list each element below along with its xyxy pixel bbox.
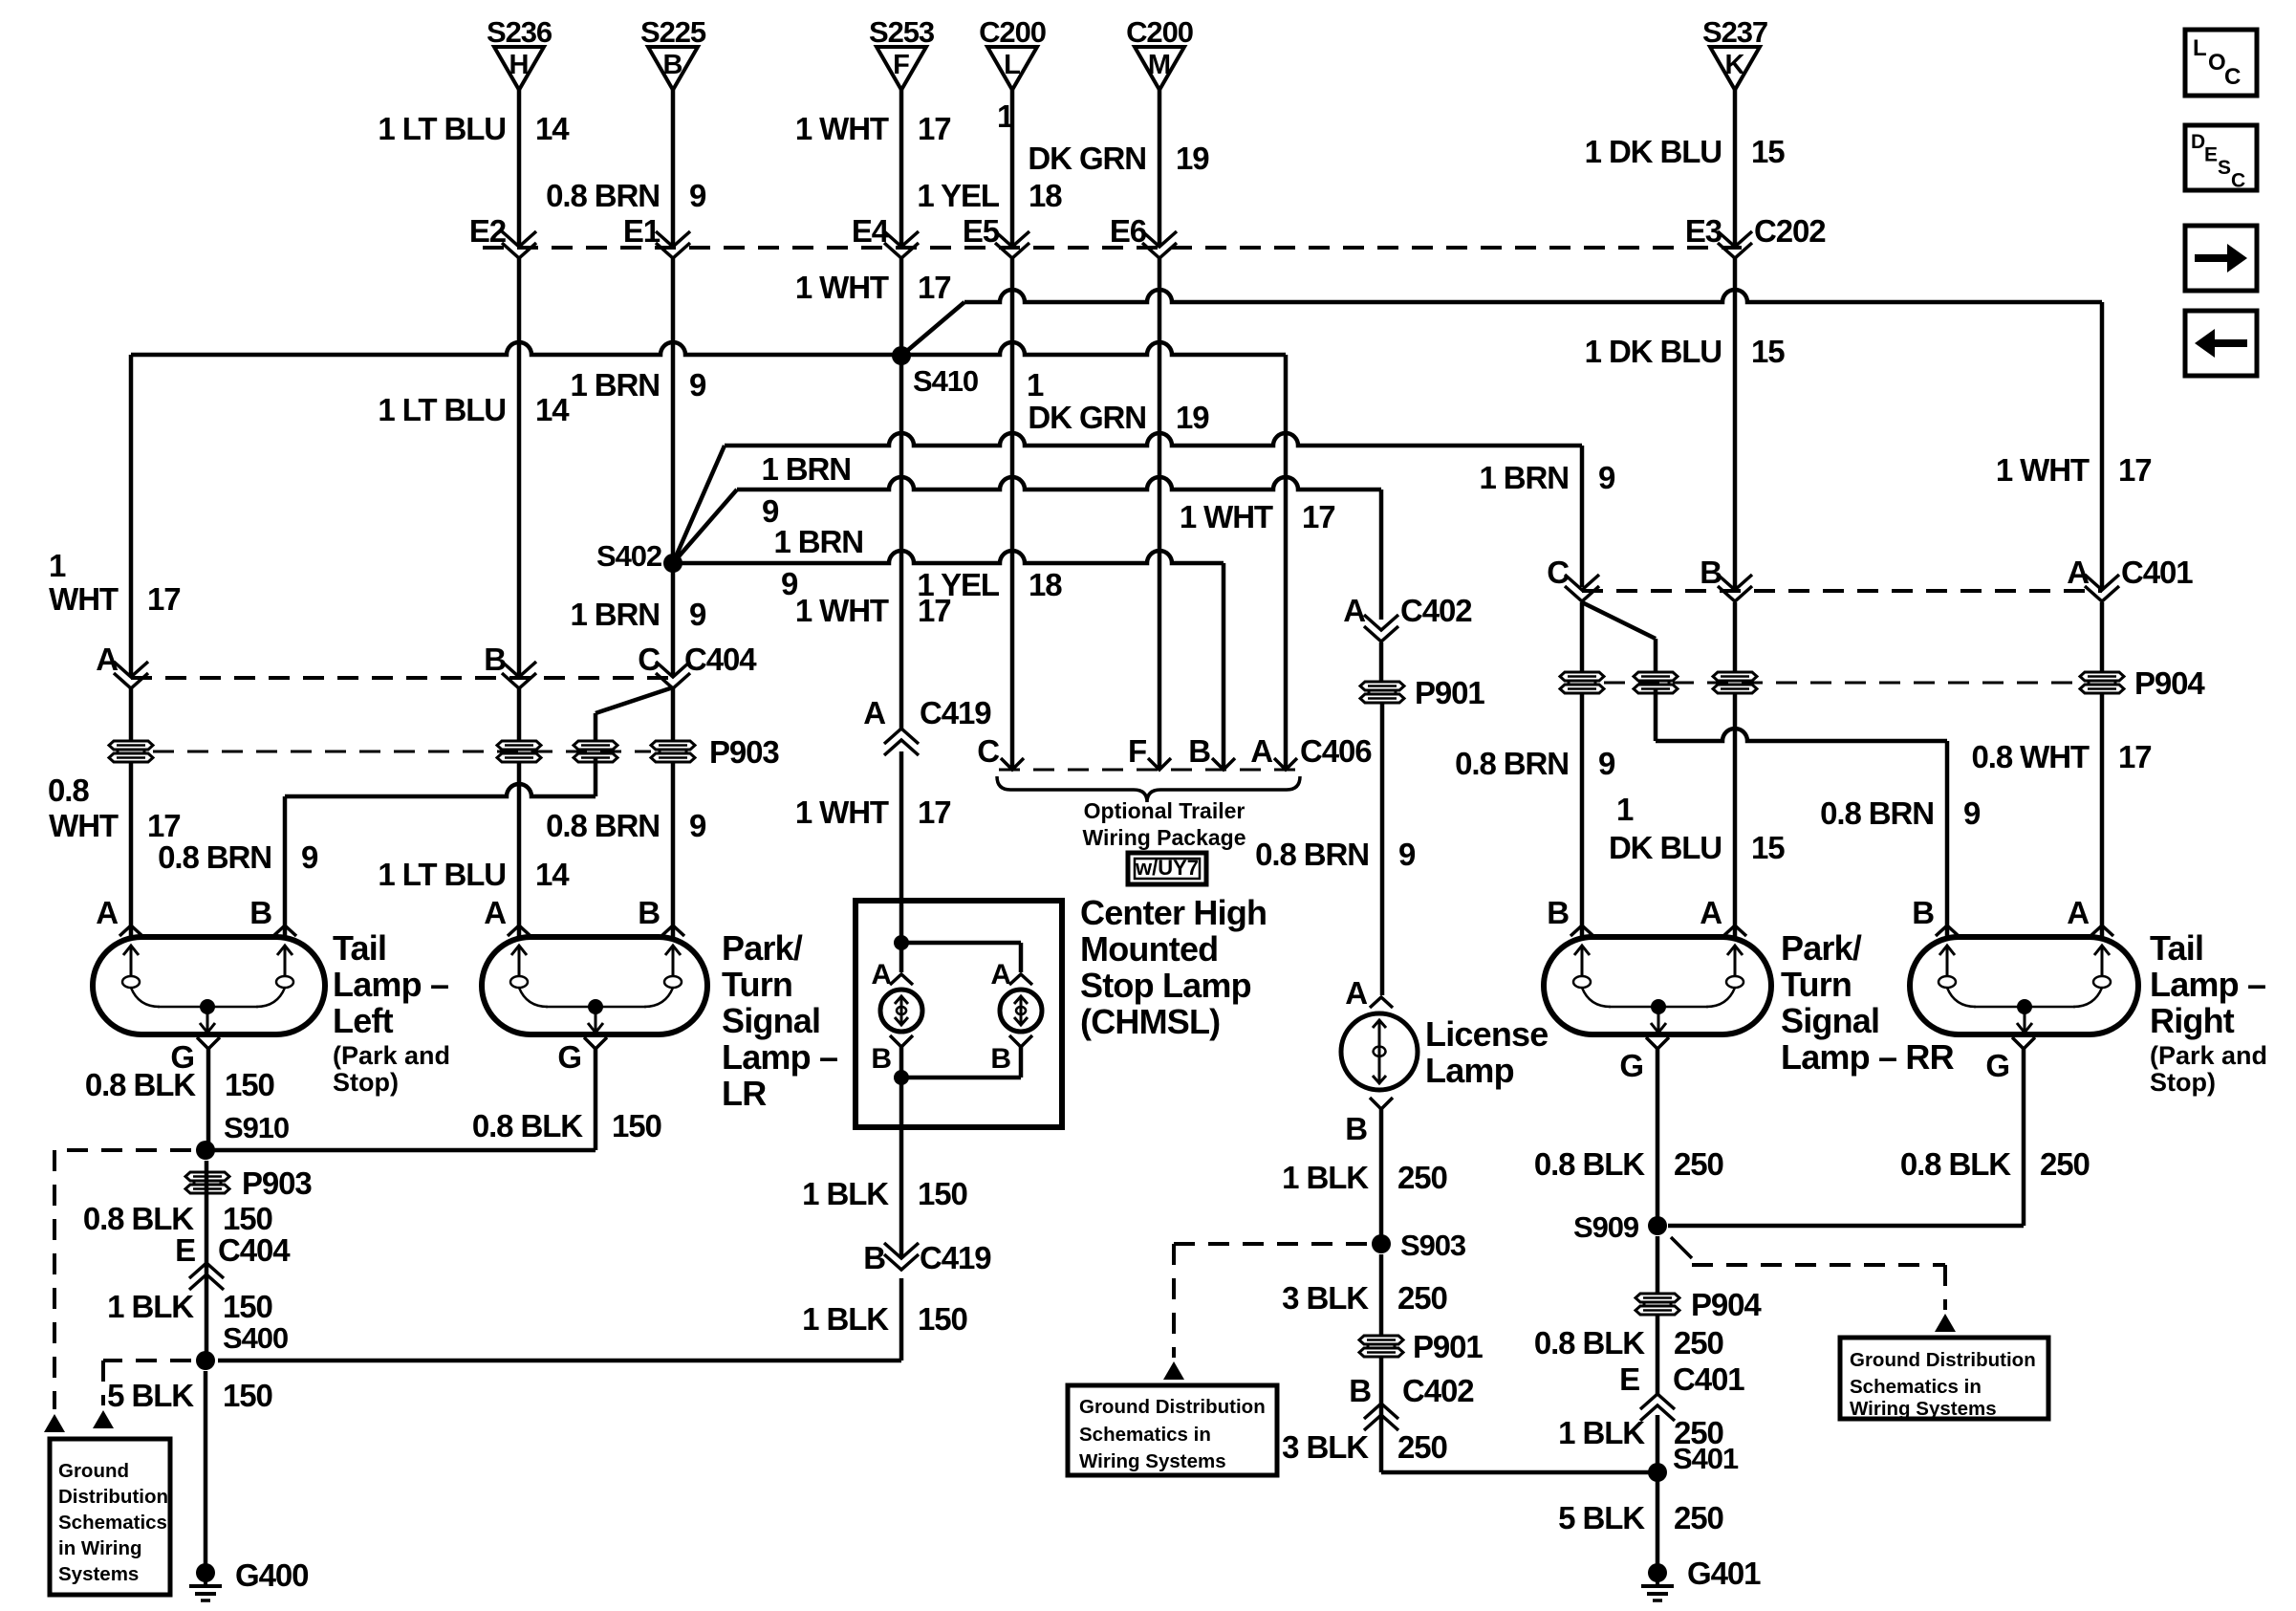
svg-text:Tail: Tail [2150, 928, 2203, 968]
wire label 0.8 BRN 9 [546, 178, 706, 213]
svg-text:DK GRN: DK GRN [1028, 400, 1146, 435]
wire L C202 to C406 [1010, 258, 1015, 768]
connector C202 pin E1 arrow [623, 213, 690, 258]
svg-text:1 YEL: 1 YEL [917, 178, 1000, 213]
svg-text:1: 1 [1027, 367, 1044, 403]
svg-text:1 BRN: 1 BRN [773, 524, 863, 559]
box arrow left [2185, 311, 2257, 376]
wire M C202 to C406 [1158, 258, 1162, 768]
svg-text:(Park and: (Park and [2150, 1041, 2267, 1070]
wire S410 branch diagonal [901, 302, 964, 356]
connector C401 pin A arrow [2067, 555, 2193, 601]
connector C402-A arrows [1343, 593, 1472, 642]
svg-text:C404: C404 [684, 642, 757, 677]
svg-text:Lamp – RR: Lamp – RR [1781, 1037, 1955, 1077]
svg-text:Wiring Systems: Wiring Systems [1079, 1450, 1226, 1472]
connector C406 pin B arrow [1188, 733, 1235, 770]
grommet row P904 dashed [1604, 665, 2205, 701]
svg-text:Ground Distribution: Ground Distribution [1079, 1396, 1266, 1418]
wire K S237 to C202 [1733, 90, 1738, 246]
wire B S402 to C404 [671, 563, 676, 675]
svg-text:G401: G401 [1687, 1556, 1761, 1591]
lamp Park/Turn Signal Lamp - LR [482, 937, 707, 1034]
svg-text:1 LT BLU: 1 LT BLU [378, 857, 506, 892]
svg-text:1 LT BLU: 1 LT BLU [378, 392, 506, 427]
wire label 0.8 BLK 250 RR [1534, 1146, 1723, 1182]
pin label A parkturn-RR [1700, 895, 1722, 930]
svg-text:P901: P901 [1413, 1329, 1483, 1364]
wire label 1 BRN 9 branch2 [773, 524, 863, 601]
grommet P904 on DK BLU [1713, 672, 1757, 693]
svg-text:S903: S903 [1400, 1229, 1466, 1262]
dashed ref from S910 [54, 1150, 191, 1409]
svg-text:Center High: Center High [1080, 893, 1267, 932]
wire 1 WHT 17 bus [964, 290, 2102, 589]
wire BRN branch3 to C406-B [673, 551, 1224, 768]
svg-text:S: S [2218, 157, 2231, 179]
svg-text:A: A [1250, 733, 1272, 769]
label Park/Turn Signal Lamp - RR [1781, 928, 1955, 1077]
svg-text:Mounted: Mounted [1080, 929, 1218, 969]
svg-text:C401: C401 [2121, 555, 2193, 590]
wire label 1 WHT 17 [795, 111, 951, 146]
svg-text:17: 17 [2118, 452, 2152, 488]
svg-text:C: C [2224, 64, 2241, 90]
svg-text:Park/: Park/ [722, 928, 803, 968]
wire label 0.8 BLK 150 lower [83, 1201, 272, 1236]
svg-text:S225: S225 [640, 15, 706, 49]
wire label 0.8 BRN 9 tail-left [158, 839, 318, 875]
wire label 1 WHT 17 right [1996, 452, 2152, 488]
svg-text:1 BRN: 1 BRN [570, 367, 660, 403]
svg-text:9: 9 [1963, 795, 1981, 831]
svg-text:A: A [1700, 895, 1722, 930]
wire label 0.8 BRN 9 license [1255, 837, 1416, 872]
svg-text:S253: S253 [869, 15, 935, 49]
connector C406 pin F arrow [1128, 733, 1171, 770]
svg-text:E3: E3 [1685, 213, 1722, 249]
pin label B tail-right [1912, 895, 1934, 930]
svg-text:17: 17 [918, 111, 951, 146]
wire label 1 WHT 17 below S410 [795, 593, 951, 628]
svg-text:17: 17 [147, 808, 181, 843]
svg-text:B: B [638, 895, 660, 930]
svg-text:1: 1 [997, 98, 1014, 134]
wire A to P903 [129, 688, 134, 937]
svg-text:C404: C404 [218, 1232, 291, 1268]
svg-text:B: B [1700, 555, 1722, 590]
box Ground Distribution left [50, 1439, 170, 1595]
svg-text:250: 250 [1674, 1500, 1723, 1535]
svg-text:0.8: 0.8 [48, 773, 89, 808]
wire label 0.8 WHT 17 [1972, 739, 2152, 774]
wire label 0.8 BRN 9 parkturn [546, 808, 706, 843]
svg-text:C419: C419 [920, 1240, 991, 1275]
wire BRN branch to TailRight-B [1656, 688, 1947, 937]
svg-text:H: H [509, 50, 530, 80]
wire F C202 to S410 [899, 258, 904, 356]
svg-text:B: B [663, 50, 683, 80]
wire K C401-B to ParkTurnRR-A [1733, 602, 1738, 937]
svg-text:C: C [977, 733, 999, 769]
connector triangle C200 pin L [979, 15, 1046, 90]
svg-text:A: A [1343, 593, 1365, 628]
pin arrow A parkturn-LR [508, 925, 531, 936]
svg-text:C402: C402 [1402, 1373, 1474, 1408]
wire label 1 BLK 250 [1558, 1415, 1723, 1450]
wire G parkturn-LR to S910 line [594, 1049, 598, 1150]
wire BRN branch2 to C402-A [737, 477, 1381, 620]
connector triangle S236 pin H [487, 15, 552, 90]
pin arrow B parkturn-LR [661, 925, 684, 936]
svg-text:1 BLK: 1 BLK [107, 1289, 194, 1324]
svg-text:C200: C200 [1126, 15, 1193, 49]
svg-text:A: A [2067, 895, 2089, 930]
svg-text:E2: E2 [469, 213, 507, 249]
label License Lamp [1425, 1014, 1548, 1090]
ground G401 [1641, 1556, 1761, 1600]
wire M C200 to C202 [1158, 90, 1162, 246]
svg-text:Schematics in: Schematics in [1850, 1376, 1982, 1398]
svg-text:0.8 BRN: 0.8 BRN [1820, 795, 1934, 831]
svg-text:0.8 BLK: 0.8 BLK [85, 1067, 196, 1102]
svg-text:Tail: Tail [333, 928, 386, 968]
connector triangle C200 pin M [1126, 15, 1193, 90]
svg-text:K: K [1725, 50, 1745, 80]
wire H C202 to C404 [517, 258, 522, 675]
wire CHMSL to C419-B [899, 1127, 904, 1257]
svg-text:1: 1 [1616, 792, 1634, 827]
svg-text:P903: P903 [709, 734, 779, 770]
wire label 1 YEL 18 mid [917, 567, 1062, 602]
connector C406 pin A arrow [1250, 733, 1372, 770]
pin arrow A tail-left [119, 925, 142, 936]
svg-text:0.8 WHT: 0.8 WHT [1972, 739, 2090, 774]
connector C406 pin C arrow [977, 733, 1024, 770]
dashed ref from S909 [1671, 1237, 1945, 1310]
svg-text:15: 15 [1751, 334, 1785, 369]
svg-text:9: 9 [301, 839, 318, 875]
wire label 0.8 BRN 9 tailright [1820, 795, 1981, 831]
box arrow right [2185, 226, 2257, 291]
svg-text:1 WHT: 1 WHT [1180, 499, 1273, 534]
svg-text:w/UY7: w/UY7 [1135, 856, 1199, 880]
license lamp pin A [1345, 975, 1393, 1011]
svg-text:1: 1 [49, 548, 66, 583]
svg-text:B: B [871, 1043, 891, 1075]
pin label B parkturn-RR [1547, 895, 1569, 930]
svg-text:A: A [96, 895, 118, 930]
svg-text:B: B [1547, 895, 1569, 930]
svg-text:Lamp –: Lamp – [333, 965, 448, 1004]
svg-text:1 WHT: 1 WHT [795, 795, 889, 830]
box w/UY7 [1128, 853, 1206, 884]
pin arrow B tail-left [273, 925, 296, 936]
svg-text:Turn: Turn [722, 965, 792, 1004]
lamp Tail Lamp - Left [93, 937, 325, 1034]
box Ground Distribution right [1840, 1338, 2048, 1420]
svg-text:Lamp –: Lamp – [2150, 965, 2265, 1004]
connector C404 pin C arrow [638, 642, 757, 688]
wire label 1 DK GRN 19 mid [1027, 367, 1209, 435]
wire label 1 LT BLU 14 [378, 111, 570, 146]
node S402 [596, 539, 682, 573]
label Park/Turn Signal Lamp - LR [722, 928, 837, 1113]
svg-text:C: C [2231, 170, 2245, 192]
connector C419-B arrows [863, 1240, 991, 1275]
svg-text:DK BLU: DK BLU [1609, 830, 1722, 865]
connector triangle S253 pin F [869, 15, 935, 90]
connector C202 pin E3 arrow [1685, 213, 1752, 258]
svg-text:L: L [2193, 35, 2207, 61]
wire K C202 to C401 [1733, 258, 1738, 589]
svg-text:0.8 BLK: 0.8 BLK [1534, 1325, 1645, 1361]
triangle marker S909 ref [1935, 1314, 1956, 1332]
wire label 3 BLK 250 b [1282, 1429, 1447, 1465]
svg-text:(CHMSL): (CHMSL) [1080, 1002, 1220, 1041]
svg-text:1 WHT: 1 WHT [795, 593, 889, 628]
wire B C202 to S402 [671, 258, 676, 563]
svg-text:1 WHT: 1 WHT [1996, 452, 2090, 488]
connector triangle S237 pin K [1702, 15, 1767, 90]
svg-text:B: B [1349, 1373, 1371, 1408]
grommet P904 on BRN main [1560, 672, 1604, 693]
wire BRN branch1 to C401-C [725, 433, 1582, 587]
grommet P901 [1360, 675, 1484, 710]
svg-text:P904: P904 [1691, 1287, 1762, 1322]
pin label A parkturn-LR [484, 895, 506, 930]
wire label 1 BLK 250 license [1282, 1160, 1447, 1195]
svg-text:Wiring Systems: Wiring Systems [1850, 1398, 1997, 1420]
connector C404 pin B arrow [484, 642, 536, 688]
svg-text:B: B [863, 1240, 885, 1275]
svg-text:Right: Right [2150, 1001, 2235, 1040]
svg-text:G: G [1985, 1048, 2009, 1083]
svg-text:17: 17 [147, 581, 181, 617]
svg-text:17: 17 [2118, 739, 2152, 774]
connector C202 pin E2 arrow [469, 213, 536, 258]
svg-text:O: O [2208, 50, 2226, 76]
CHMSL bulb 1 [880, 990, 922, 1032]
wire label 1 LT BLU 14 mid [378, 392, 570, 427]
svg-text:0.8 BLK: 0.8 BLK [472, 1108, 583, 1143]
svg-text:0.8 BRN: 0.8 BRN [546, 178, 660, 213]
node S909 [1573, 1210, 1667, 1244]
connector C404-E arrows [175, 1232, 291, 1290]
svg-text:3 BLK: 3 BLK [1282, 1280, 1369, 1316]
svg-text:WHT: WHT [49, 808, 119, 843]
license lamp pin B [1345, 1098, 1393, 1146]
svg-text:B: B [484, 642, 506, 677]
wire F C419 to CHMSL [899, 751, 904, 903]
wire label 1 DK BLU 15 [1585, 134, 1786, 169]
svg-text:9: 9 [1398, 837, 1416, 872]
wire F S410 to C419 [899, 356, 904, 729]
svg-text:1 LT BLU: 1 LT BLU [378, 111, 506, 146]
triangle marker S400 ref [93, 1410, 114, 1428]
CHMSL bulb2 pin B [990, 1035, 1032, 1075]
svg-text:0.8 BLK: 0.8 BLK [1900, 1146, 2011, 1182]
pin arrow A tail-right [2090, 925, 2113, 936]
svg-text:P904: P904 [2134, 665, 2205, 701]
svg-text:B: B [1188, 733, 1210, 769]
wire label 1 DK BLU 15 mid [1585, 334, 1786, 369]
svg-text:0.8 BRN: 0.8 BRN [546, 808, 660, 843]
svg-text:DK GRN: DK GRN [1028, 141, 1146, 176]
label CHMSL [1080, 893, 1267, 1041]
svg-text:0.8 BLK: 0.8 BLK [1534, 1146, 1645, 1182]
svg-text:B: B [1345, 1111, 1367, 1146]
wire label 1 BRN 9 to C404 [570, 597, 706, 632]
svg-text:3 BLK: 3 BLK [1282, 1429, 1369, 1465]
wire B S225 to C202 [671, 90, 676, 246]
CHMSL bulb2 pin A [990, 959, 1032, 991]
svg-text:14: 14 [535, 857, 570, 892]
svg-text:5 BLK: 5 BLK [1558, 1500, 1645, 1535]
svg-text:Turn: Turn [1781, 965, 1852, 1004]
connector C401-E arrows [1619, 1361, 1744, 1421]
svg-text:150: 150 [225, 1067, 274, 1102]
wire label 1 WHT 17 mid [795, 270, 951, 305]
wire branch grommet to TailLeft-B [285, 757, 596, 937]
wire label 1 WHT 17 C406A [1180, 499, 1335, 534]
wire F S253 to C202 [899, 90, 904, 246]
svg-text:250: 250 [1674, 1146, 1723, 1182]
svg-text:1 BLK: 1 BLK [802, 1176, 889, 1211]
svg-text:17: 17 [918, 593, 951, 628]
wire label 1 DK BLU 15 low [1609, 792, 1785, 865]
svg-text:S237: S237 [1702, 15, 1767, 49]
svg-text:9: 9 [689, 367, 706, 403]
wire label 1 BLK 150 chmsl2 [802, 1301, 967, 1337]
svg-text:L: L [1004, 50, 1021, 80]
svg-text:Left: Left [333, 1001, 394, 1040]
svg-text:C402: C402 [1400, 593, 1472, 628]
connector C406 dashed line [999, 769, 1300, 772]
svg-text:Ground: Ground [58, 1460, 129, 1482]
wire label 5 BLK 250 [1558, 1500, 1723, 1535]
grommet P904 lower [1635, 1287, 1762, 1322]
wire S400 to G400 [204, 1371, 208, 1573]
svg-text:B: B [990, 1043, 1010, 1075]
pin arrow B parkturn-RR [1570, 925, 1593, 936]
svg-text:Signal: Signal [722, 1001, 820, 1040]
svg-text:17: 17 [918, 795, 951, 830]
wire label 3 BLK 250 a [1282, 1280, 1447, 1316]
box CHMSL [856, 901, 1062, 1127]
svg-text:C200: C200 [979, 15, 1046, 49]
lamp Park/Turn Signal Lamp - RR [1544, 937, 1771, 1034]
pin label A tail-right [2067, 895, 2089, 930]
svg-text:A: A [484, 895, 506, 930]
svg-text:S410: S410 [913, 364, 978, 398]
wire WHT to C406-A [901, 342, 1286, 768]
svg-text:1 BRN: 1 BRN [1479, 460, 1569, 495]
wire label 1 WHT 17 chmsl [795, 795, 951, 830]
box Ground Distribution mid [1068, 1385, 1277, 1475]
grommet P904 on BRN branch [1634, 672, 1678, 693]
wire label 1 LT BLU 14 lower [378, 857, 570, 892]
svg-text:9: 9 [689, 808, 706, 843]
svg-text:150: 150 [918, 1176, 967, 1211]
brace optional trailer [997, 776, 1300, 802]
svg-text:G400: G400 [235, 1557, 308, 1593]
connector C202 pin E4 arrow [852, 213, 919, 258]
grommet row P903 dashed line [153, 734, 779, 770]
connector C401 dashed line [1582, 589, 2102, 593]
svg-text:150: 150 [223, 1289, 272, 1324]
svg-text:F: F [893, 50, 910, 80]
pin label B parkturn-LR [638, 895, 660, 930]
svg-text:E1: E1 [623, 213, 661, 249]
svg-text:1 DK BLU: 1 DK BLU [1585, 134, 1722, 169]
wire S910 to C404-E [205, 1161, 209, 1361]
node S903 [1372, 1229, 1466, 1262]
CHMSL bulb1 pin B [871, 1035, 913, 1075]
svg-text:19: 19 [1176, 400, 1209, 435]
svg-text:0.8 BRN: 0.8 BRN [158, 839, 271, 875]
svg-text:C406: C406 [1300, 733, 1372, 769]
wire P904b to C401-E [1656, 1315, 1660, 1394]
svg-text:17: 17 [918, 270, 951, 305]
svg-text:Signal: Signal [1781, 1001, 1879, 1040]
label Optional Trailer Wiring Package [1082, 798, 1245, 850]
wire G tail-left to S910 [206, 1049, 211, 1150]
pin arrow G parkturn-LR [557, 1037, 607, 1075]
wire label 0.8 BLK 250 tailright [1900, 1146, 2090, 1182]
svg-text:250: 250 [1397, 1280, 1447, 1316]
svg-text:E4: E4 [852, 213, 890, 249]
CHMSL internal feed [894, 901, 1021, 972]
svg-text:B: B [249, 895, 271, 930]
svg-text:250: 250 [1397, 1429, 1447, 1465]
wire label 1 YEL 18 [917, 178, 1062, 213]
connector C401 pin B arrow [1700, 555, 1752, 601]
pin label A tail-left [96, 895, 118, 930]
svg-text:WHT: WHT [49, 581, 119, 617]
svg-text:150: 150 [223, 1201, 272, 1236]
wire label 1 BLK 150 [107, 1289, 272, 1324]
pin arrow B tail-right [1936, 925, 1959, 936]
wire S909 to P904b [1656, 1236, 1660, 1295]
wire label 5 BLK 150 [107, 1378, 272, 1413]
wire label 0.8 BLK 150 LR [472, 1108, 661, 1143]
CHMSL bulb 2 [1000, 990, 1042, 1032]
grommet P903 on wire C [651, 741, 695, 762]
svg-text:Distribution: Distribution [58, 1486, 168, 1508]
svg-text:A: A [871, 959, 891, 991]
svg-text:S236: S236 [487, 15, 552, 49]
wire C404-C to ParkTurnLR-B [671, 688, 676, 937]
svg-text:C202: C202 [1754, 213, 1826, 249]
wire C401-E to S401 [1656, 1415, 1660, 1573]
svg-text:1 WHT: 1 WHT [795, 111, 889, 146]
svg-text:1 BLK: 1 BLK [1558, 1415, 1645, 1450]
svg-text:5 BLK: 5 BLK [107, 1378, 194, 1413]
svg-text:Ground Distribution: Ground Distribution [1850, 1349, 2036, 1371]
svg-text:E: E [2204, 144, 2218, 166]
label Tail Lamp - Right [2150, 928, 2267, 1097]
svg-text:E: E [175, 1232, 195, 1268]
dashed ref from S903 [1174, 1244, 1367, 1358]
wire WHT C401-A to TailRight-A [2100, 602, 2105, 937]
wire C402-A to P901 [1379, 642, 1384, 682]
svg-text:A: A [990, 959, 1010, 991]
node S410 [892, 346, 978, 398]
grommet P903 on branch [574, 741, 617, 762]
svg-text:License: License [1425, 1014, 1548, 1054]
svg-text:M: M [1148, 50, 1171, 80]
